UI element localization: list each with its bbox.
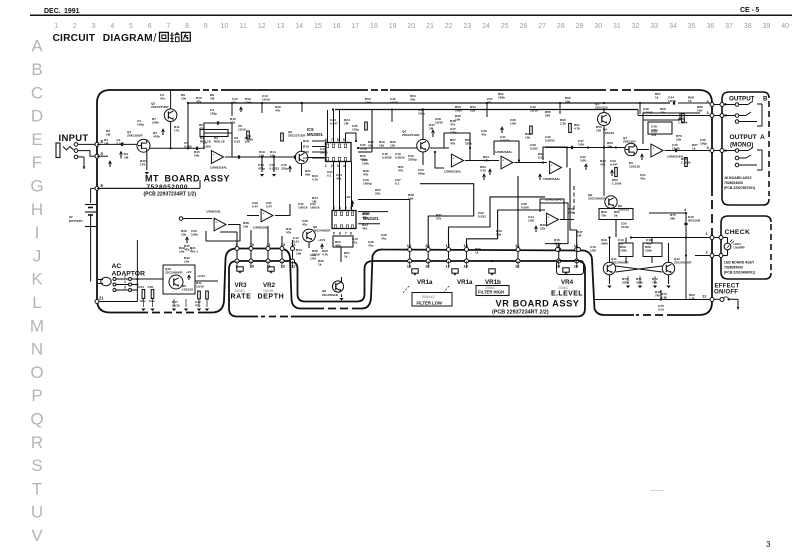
svg-text:M: M	[30, 316, 44, 335]
svg-text:4.7k: 4.7k	[574, 127, 580, 131]
svg-text:CIRCUIT: CIRCUIT	[53, 33, 96, 44]
svg-text:12: 12	[291, 242, 296, 247]
svg-text:MN3001: MN3001	[307, 132, 323, 137]
svg-text:1/50: 1/50	[580, 159, 586, 163]
svg-text:ADAPTOR: ADAPTOR	[112, 271, 146, 278]
svg-text:17: 17	[446, 264, 451, 269]
svg-text:47k: 47k	[651, 133, 656, 137]
svg-text:6: 6	[337, 138, 339, 142]
svg-text:I: I	[35, 223, 40, 242]
svg-text:15/16: 15/16	[196, 285, 204, 289]
svg-text:10k: 10k	[181, 233, 186, 237]
svg-text:OUTPUT: OUTPUT	[729, 96, 755, 103]
svg-text:+: +	[652, 147, 654, 151]
svg-text:50kAx2: 50kAx2	[422, 295, 435, 299]
svg-text:R20: R20	[303, 150, 309, 154]
svg-text:17: 17	[446, 243, 451, 248]
svg-text:7: 7	[331, 138, 333, 142]
svg-text:10/16: 10/16	[262, 98, 270, 102]
svg-text:U: U	[31, 503, 43, 522]
svg-text:5k: 5k	[614, 214, 618, 218]
svg-text:J: J	[33, 246, 42, 265]
svg-text:0.047: 0.047	[610, 163, 618, 167]
svg-text:4.7k: 4.7k	[322, 253, 328, 257]
svg-text:1.100k: 1.100k	[678, 121, 688, 125]
svg-text:BOARD: BOARD	[165, 174, 201, 184]
svg-text:47k: 47k	[275, 109, 280, 113]
svg-text:1k: 1k	[655, 96, 659, 100]
svg-text:10/16: 10/16	[320, 151, 328, 155]
svg-text:VR1a: VR1a	[457, 279, 473, 286]
svg-text:100k: 100k	[568, 211, 575, 215]
svg-text:Q: Q	[30, 410, 43, 429]
svg-text:1/2M5218AL: 1/2M5218AL	[543, 177, 561, 181]
svg-text:10k: 10k	[408, 197, 413, 201]
svg-text:11: 11	[239, 23, 246, 30]
svg-text:F: F	[32, 153, 42, 172]
svg-text:DEPTH: DEPTH	[258, 294, 285, 301]
svg-text:10: 10	[250, 242, 255, 247]
svg-text:C22: C22	[303, 156, 309, 160]
svg-text:33: 33	[650, 23, 658, 30]
svg-text:1/50: 1/50	[510, 122, 516, 126]
svg-text:2SC2458GR: 2SC2458GR	[611, 261, 629, 265]
svg-text:4: 4	[110, 23, 114, 30]
svg-text:47k-1: 47k-1	[184, 248, 192, 252]
svg-text:18: 18	[464, 243, 469, 248]
svg-text:20: 20	[425, 243, 430, 248]
svg-text:10k: 10k	[455, 118, 460, 122]
svg-text:10k: 10k	[243, 225, 248, 229]
svg-text:1/50: 1/50	[590, 249, 596, 253]
svg-text:28: 28	[557, 23, 565, 30]
svg-text:DEC.: DEC.	[44, 8, 61, 15]
svg-text:23: 23	[463, 23, 471, 30]
svg-text:0.47: 0.47	[266, 205, 272, 209]
svg-text:15k: 15k	[660, 111, 665, 115]
svg-text:0.033: 0.033	[530, 147, 538, 151]
svg-text:390k: 390k	[601, 242, 608, 246]
svg-text:1.100k: 1.100k	[681, 161, 691, 165]
svg-text:LED BOARD ASSY: LED BOARD ASSY	[724, 261, 755, 265]
svg-text:4: 4	[343, 164, 345, 168]
svg-text:7: 7	[166, 23, 170, 30]
svg-text:2200p: 2200p	[408, 158, 417, 162]
svg-text:AC: AC	[112, 263, 122, 270]
svg-text:47p: 47p	[481, 133, 486, 137]
svg-text:8: 8	[185, 23, 189, 30]
svg-text:120p: 120p	[352, 128, 359, 132]
svg-text:10k: 10k	[181, 97, 186, 101]
svg-text:VR4: VR4	[561, 279, 574, 286]
svg-text:2SC2458GR: 2SC2458GR	[674, 261, 692, 265]
svg-text:BATTERY: BATTERY	[69, 219, 83, 223]
svg-text:15k: 15k	[184, 260, 189, 264]
svg-text:1M: 1M	[577, 234, 582, 238]
svg-text:A: A	[760, 134, 765, 141]
svg-text:10k: 10k	[697, 109, 702, 113]
svg-text:470k: 470k	[153, 135, 160, 139]
svg-text:1991: 1991	[64, 8, 80, 15]
svg-text:0.0039: 0.0039	[382, 156, 392, 160]
svg-text:2SC2458GR: 2SC2458GR	[165, 271, 183, 275]
svg-text:47k: 47k	[600, 163, 605, 167]
svg-text:100/16: 100/16	[298, 206, 308, 210]
svg-text:35: 35	[688, 23, 696, 30]
svg-text:17k: 17k	[174, 129, 179, 133]
svg-text:37: 37	[725, 23, 733, 30]
svg-text:5: 5	[333, 231, 335, 235]
svg-text:2: 2	[124, 275, 126, 279]
svg-text:1: 1	[54, 23, 58, 30]
svg-text:0.056: 0.056	[521, 206, 529, 210]
svg-text:1/50: 1/50	[528, 219, 534, 223]
svg-text:10: 10	[250, 264, 255, 269]
svg-text:47k: 47k	[362, 227, 367, 231]
svg-text:10/16: 10/16	[390, 101, 398, 105]
svg-text:47p: 47p	[302, 223, 307, 227]
svg-text:1/2M5218AL: 1/2M5218AL	[210, 166, 228, 170]
svg-text:20: 20	[425, 264, 430, 269]
svg-text:45B: 45B	[335, 244, 341, 248]
svg-text:MT: MT	[145, 174, 159, 184]
svg-text:1M: 1M	[124, 156, 129, 160]
svg-text:13: 13	[281, 242, 286, 247]
svg-text:2SA1115: 2SA1115	[595, 106, 608, 110]
svg-text:24: 24	[482, 23, 490, 30]
svg-text:100u: 100u	[140, 299, 146, 303]
svg-text:19: 19	[389, 23, 397, 30]
svg-text:RD5.1E: RD5.1E	[214, 140, 225, 144]
svg-text:RD5.1E: RD5.1E	[200, 140, 211, 144]
svg-text:4.7k: 4.7k	[312, 178, 318, 182]
svg-text:15: 15	[314, 23, 322, 30]
svg-text:K: K	[31, 270, 43, 289]
svg-text:1k: 1k	[344, 255, 348, 259]
svg-text:100k: 100k	[498, 96, 505, 100]
svg-text:100k: 100k	[455, 109, 462, 113]
svg-text:(PCB 22910496001): (PCB 22910496001)	[724, 271, 755, 275]
svg-text:5: 5	[343, 138, 345, 142]
svg-text:12: 12	[258, 23, 266, 30]
svg-text:(PCB 22937234RT 1/2): (PCB 22937234RT 1/2)	[144, 192, 197, 198]
svg-text:47p: 47p	[368, 244, 373, 248]
svg-text:6: 6	[148, 23, 152, 30]
svg-text:1/50: 1/50	[310, 257, 316, 261]
svg-text:D: D	[31, 107, 43, 126]
svg-text:WZ150B: WZ150B	[688, 219, 701, 223]
svg-text:15/16: 15/16	[172, 304, 180, 308]
svg-text:10k: 10k	[368, 144, 373, 148]
svg-text:0.33: 0.33	[234, 140, 240, 144]
svg-text:47p: 47p	[640, 177, 645, 181]
svg-text:L: L	[32, 293, 41, 312]
svg-text:3: 3	[337, 164, 339, 168]
svg-text:15.3k: 15.3k	[621, 225, 629, 229]
svg-text:33k: 33k	[470, 109, 475, 113]
svg-text:21: 21	[426, 23, 434, 30]
svg-text:B: B	[31, 60, 42, 79]
svg-text:S: S	[31, 456, 42, 475]
svg-text:47k: 47k	[362, 216, 367, 220]
svg-text:47k: 47k	[450, 142, 455, 146]
svg-text:21: 21	[99, 296, 104, 301]
svg-text:+: +	[548, 216, 550, 220]
svg-text:39k: 39k	[607, 145, 612, 149]
svg-text:2: 2	[331, 164, 333, 168]
svg-text:39: 39	[763, 23, 771, 30]
svg-text:1k: 1k	[692, 147, 696, 151]
svg-text:E: E	[31, 130, 42, 149]
svg-text:330k: 330k	[636, 281, 643, 285]
svg-text:10/16: 10/16	[672, 147, 680, 151]
svg-text:100k: 100k	[645, 249, 652, 253]
svg-text:1: 1	[124, 280, 126, 284]
svg-text:36: 36	[706, 23, 714, 30]
svg-text:JK BOARD ASSY: JK BOARD ASSY	[724, 176, 752, 180]
svg-text:0.047: 0.047	[117, 142, 125, 146]
svg-text:0.047: 0.047	[330, 122, 338, 126]
svg-text:14: 14	[574, 264, 579, 269]
svg-text:16: 16	[515, 243, 520, 248]
svg-text:(MONO): (MONO)	[730, 142, 753, 149]
svg-text:4.7k: 4.7k	[483, 159, 489, 163]
svg-text:10: 10	[221, 23, 229, 30]
svg-text:A: A	[31, 37, 43, 56]
svg-text:14: 14	[295, 23, 303, 30]
svg-text:100p: 100p	[450, 131, 457, 135]
svg-text:16: 16	[515, 264, 520, 269]
svg-text:15: 15	[407, 243, 412, 248]
svg-text:12: 12	[702, 294, 707, 299]
svg-text:G: G	[30, 177, 43, 196]
svg-text:2504C: 2504C	[235, 289, 246, 293]
svg-text:2SC2371GR: 2SC2371GR	[288, 134, 306, 138]
svg-text:22k: 22k	[375, 192, 380, 196]
svg-text:38: 38	[744, 23, 752, 30]
svg-text:1.8k: 1.8k	[661, 296, 667, 300]
svg-text:7528052000: 7528052000	[147, 184, 189, 191]
svg-text:1/2M5218AL: 1/2M5218AL	[444, 170, 462, 174]
svg-text:0.033: 0.033	[478, 215, 486, 219]
svg-text:560: 560	[545, 114, 550, 118]
svg-text:C: C	[31, 83, 43, 102]
svg-text:390k: 390k	[554, 242, 561, 246]
svg-text:T: T	[32, 479, 42, 498]
svg-text:2SC2458GR: 2SC2458GR	[313, 229, 331, 233]
svg-text:10/16: 10/16	[530, 109, 538, 113]
svg-text:56k: 56k	[305, 173, 310, 177]
svg-text:100p: 100p	[210, 112, 217, 116]
svg-text:VR1a: VR1a	[417, 279, 433, 286]
svg-text:47p: 47p	[336, 177, 341, 181]
svg-text:7528055000: 7528055000	[724, 266, 743, 270]
svg-text:R: R	[31, 433, 43, 452]
svg-text:220k: 220k	[465, 142, 472, 146]
svg-text:1M: 1M	[104, 142, 109, 146]
svg-text:2SC2459GB: 2SC2459GB	[322, 293, 338, 297]
svg-text:+9V: +9V	[186, 270, 193, 274]
svg-text:1SS133: 1SS133	[603, 131, 614, 135]
svg-text:1000p: 1000p	[363, 182, 372, 186]
svg-text:1k: 1k	[318, 263, 322, 267]
svg-text:1004B: 1004B	[263, 289, 274, 293]
svg-text:6: 6	[339, 231, 341, 235]
svg-text:5: 5	[129, 23, 133, 30]
svg-text:75k: 75k	[601, 214, 606, 218]
svg-text:1/2M5218AL: 1/2M5218AL	[495, 150, 513, 154]
svg-text:5: 5	[756, 7, 760, 14]
svg-text:0.01: 0.01	[658, 308, 664, 312]
svg-text:27k: 27k	[436, 217, 441, 221]
svg-text:13: 13	[277, 23, 285, 30]
svg-text:30: 30	[594, 23, 602, 30]
svg-text:1SS133: 1SS133	[182, 288, 193, 292]
svg-text:47k: 47k	[450, 123, 455, 127]
svg-text:33k: 33k	[410, 98, 415, 102]
svg-text:1/2M5223L: 1/2M5223L	[206, 210, 221, 214]
svg-text:+4.5V: +4.5V	[197, 274, 206, 278]
svg-text:VR BOARD ASSY: VR BOARD ASSY	[496, 299, 580, 309]
svg-text:0.1: 0.1	[395, 182, 400, 186]
svg-text:47u: 47u	[195, 304, 200, 308]
svg-text:7: 7	[345, 231, 347, 235]
svg-text:10k: 10k	[496, 233, 501, 237]
svg-text:(PCB 22927687001): (PCB 22927687001)	[724, 186, 755, 190]
svg-text:1M: 1M	[344, 122, 349, 126]
svg-text:10k: 10k	[379, 144, 384, 148]
svg-text:31: 31	[613, 23, 621, 30]
svg-text:10k: 10k	[296, 252, 301, 256]
svg-text:2SC2371GR: 2SC2371GR	[151, 105, 169, 109]
svg-text:INPUT: INPUT	[59, 133, 89, 144]
svg-text:10k: 10k	[230, 121, 235, 125]
svg-text:176: 176	[140, 163, 145, 167]
svg-text:1k: 1k	[688, 99, 692, 103]
svg-text:100k: 100k	[245, 101, 252, 105]
svg-text:15k: 15k	[390, 144, 395, 148]
svg-text:R18: R18	[303, 139, 309, 143]
svg-text:C34: C34	[138, 285, 144, 289]
svg-text:B: B	[763, 96, 768, 103]
svg-text:2.2k: 2.2k	[560, 122, 566, 126]
svg-text:0.0068: 0.0068	[643, 111, 653, 115]
svg-text:100k: 100k	[152, 121, 159, 125]
svg-text:0.1: 0.1	[327, 174, 332, 178]
svg-text:40: 40	[781, 23, 789, 30]
svg-text:2SK118Y: 2SK118Y	[623, 140, 637, 144]
svg-text:100k: 100k	[365, 101, 372, 105]
svg-text:18: 18	[464, 264, 469, 269]
svg-text:2SK118GR: 2SK118GR	[127, 134, 143, 138]
svg-text:CE: CE	[740, 7, 750, 14]
svg-text:560p: 560p	[418, 172, 425, 176]
svg-text:4.7k: 4.7k	[480, 169, 486, 173]
svg-text:9: 9	[204, 23, 208, 30]
svg-text:18: 18	[370, 23, 378, 30]
svg-text:+9V: +9V	[345, 195, 352, 199]
svg-text:13: 13	[281, 264, 286, 269]
svg-text:1/50: 1/50	[578, 143, 584, 147]
svg-text:20: 20	[407, 23, 415, 30]
svg-text:2SC2458GR: 2SC2458GR	[588, 197, 606, 201]
svg-text:100/16: 100/16	[310, 206, 320, 210]
svg-text:FILTER LOW: FILTER LOW	[417, 301, 442, 306]
svg-text:22: 22	[445, 23, 453, 30]
svg-text:16: 16	[333, 23, 341, 30]
svg-text:0.47: 0.47	[252, 205, 258, 209]
svg-text:1.100k: 1.100k	[612, 182, 622, 186]
svg-text:CHECK: CHECK	[725, 229, 751, 236]
svg-text:47p: 47p	[352, 241, 357, 245]
svg-text:OUTPUT: OUTPUT	[730, 134, 757, 141]
svg-text:+14V: +14V	[318, 238, 326, 242]
svg-text:150k: 150k	[362, 162, 369, 166]
svg-text:25: 25	[501, 23, 509, 30]
svg-text:8.2k: 8.2k	[538, 156, 544, 160]
svg-text:150: 150	[596, 129, 601, 133]
svg-text:0.056: 0.056	[203, 145, 211, 149]
svg-text:N: N	[31, 340, 43, 359]
svg-text:FILTER HIGH: FILTER HIGH	[478, 290, 504, 295]
svg-text:32: 32	[632, 23, 640, 30]
svg-text:(PCB 22937234RT 2/2): (PCB 22937234RT 2/2)	[492, 310, 549, 316]
svg-text:27: 27	[538, 23, 546, 30]
svg-text:7W: 7W	[655, 294, 660, 298]
svg-text:ASSY: ASSY	[204, 174, 231, 184]
svg-text:ON/OFF: ON/OFF	[714, 289, 738, 296]
svg-text:R19: R19	[303, 145, 309, 149]
svg-text:0.0033: 0.0033	[545, 139, 555, 143]
svg-text:+: +	[215, 221, 217, 225]
svg-text:47k: 47k	[363, 173, 368, 177]
svg-text:47u: 47u	[160, 97, 165, 101]
svg-text:+: +	[453, 157, 455, 161]
svg-text:15: 15	[407, 264, 412, 269]
svg-text:1/2M5223L: 1/2M5223L	[253, 226, 268, 230]
svg-text:DIAGRAM: DIAGRAM	[103, 33, 153, 44]
svg-text:100u: 100u	[191, 233, 198, 237]
svg-text:V: V	[31, 526, 43, 545]
svg-text:100p: 100p	[137, 123, 144, 127]
svg-text:7528054000: 7528054000	[724, 181, 743, 185]
svg-text:17: 17	[351, 23, 359, 30]
svg-text:47p: 47p	[646, 242, 651, 246]
svg-text:C35: C35	[148, 285, 154, 289]
svg-text:1: 1	[325, 164, 327, 168]
svg-text:+: +	[502, 159, 504, 163]
svg-text:VR1b: VR1b	[485, 279, 501, 286]
svg-text:RATE: RATE	[231, 294, 252, 301]
svg-text:8: 8	[350, 231, 352, 235]
svg-text:56k: 56k	[670, 217, 675, 221]
svg-text:34: 34	[669, 23, 677, 30]
svg-text:10/16: 10/16	[435, 121, 443, 125]
svg-text:E.LEVEL: E.LEVEL	[551, 291, 583, 298]
svg-text:47k: 47k	[196, 100, 201, 104]
svg-text:+: +	[262, 212, 264, 216]
svg-text:1k: 1k	[475, 251, 479, 255]
svg-text:3: 3	[92, 23, 96, 30]
svg-text:H: H	[31, 200, 43, 219]
svg-text:P: P	[31, 386, 42, 405]
svg-text:0.0018: 0.0018	[395, 156, 405, 160]
svg-text:100k: 100k	[620, 249, 627, 253]
svg-text:250kC: 250kC	[558, 286, 569, 290]
svg-text:O: O	[30, 363, 43, 382]
svg-text:47p: 47p	[618, 242, 623, 246]
svg-text:10k: 10k	[565, 100, 570, 104]
